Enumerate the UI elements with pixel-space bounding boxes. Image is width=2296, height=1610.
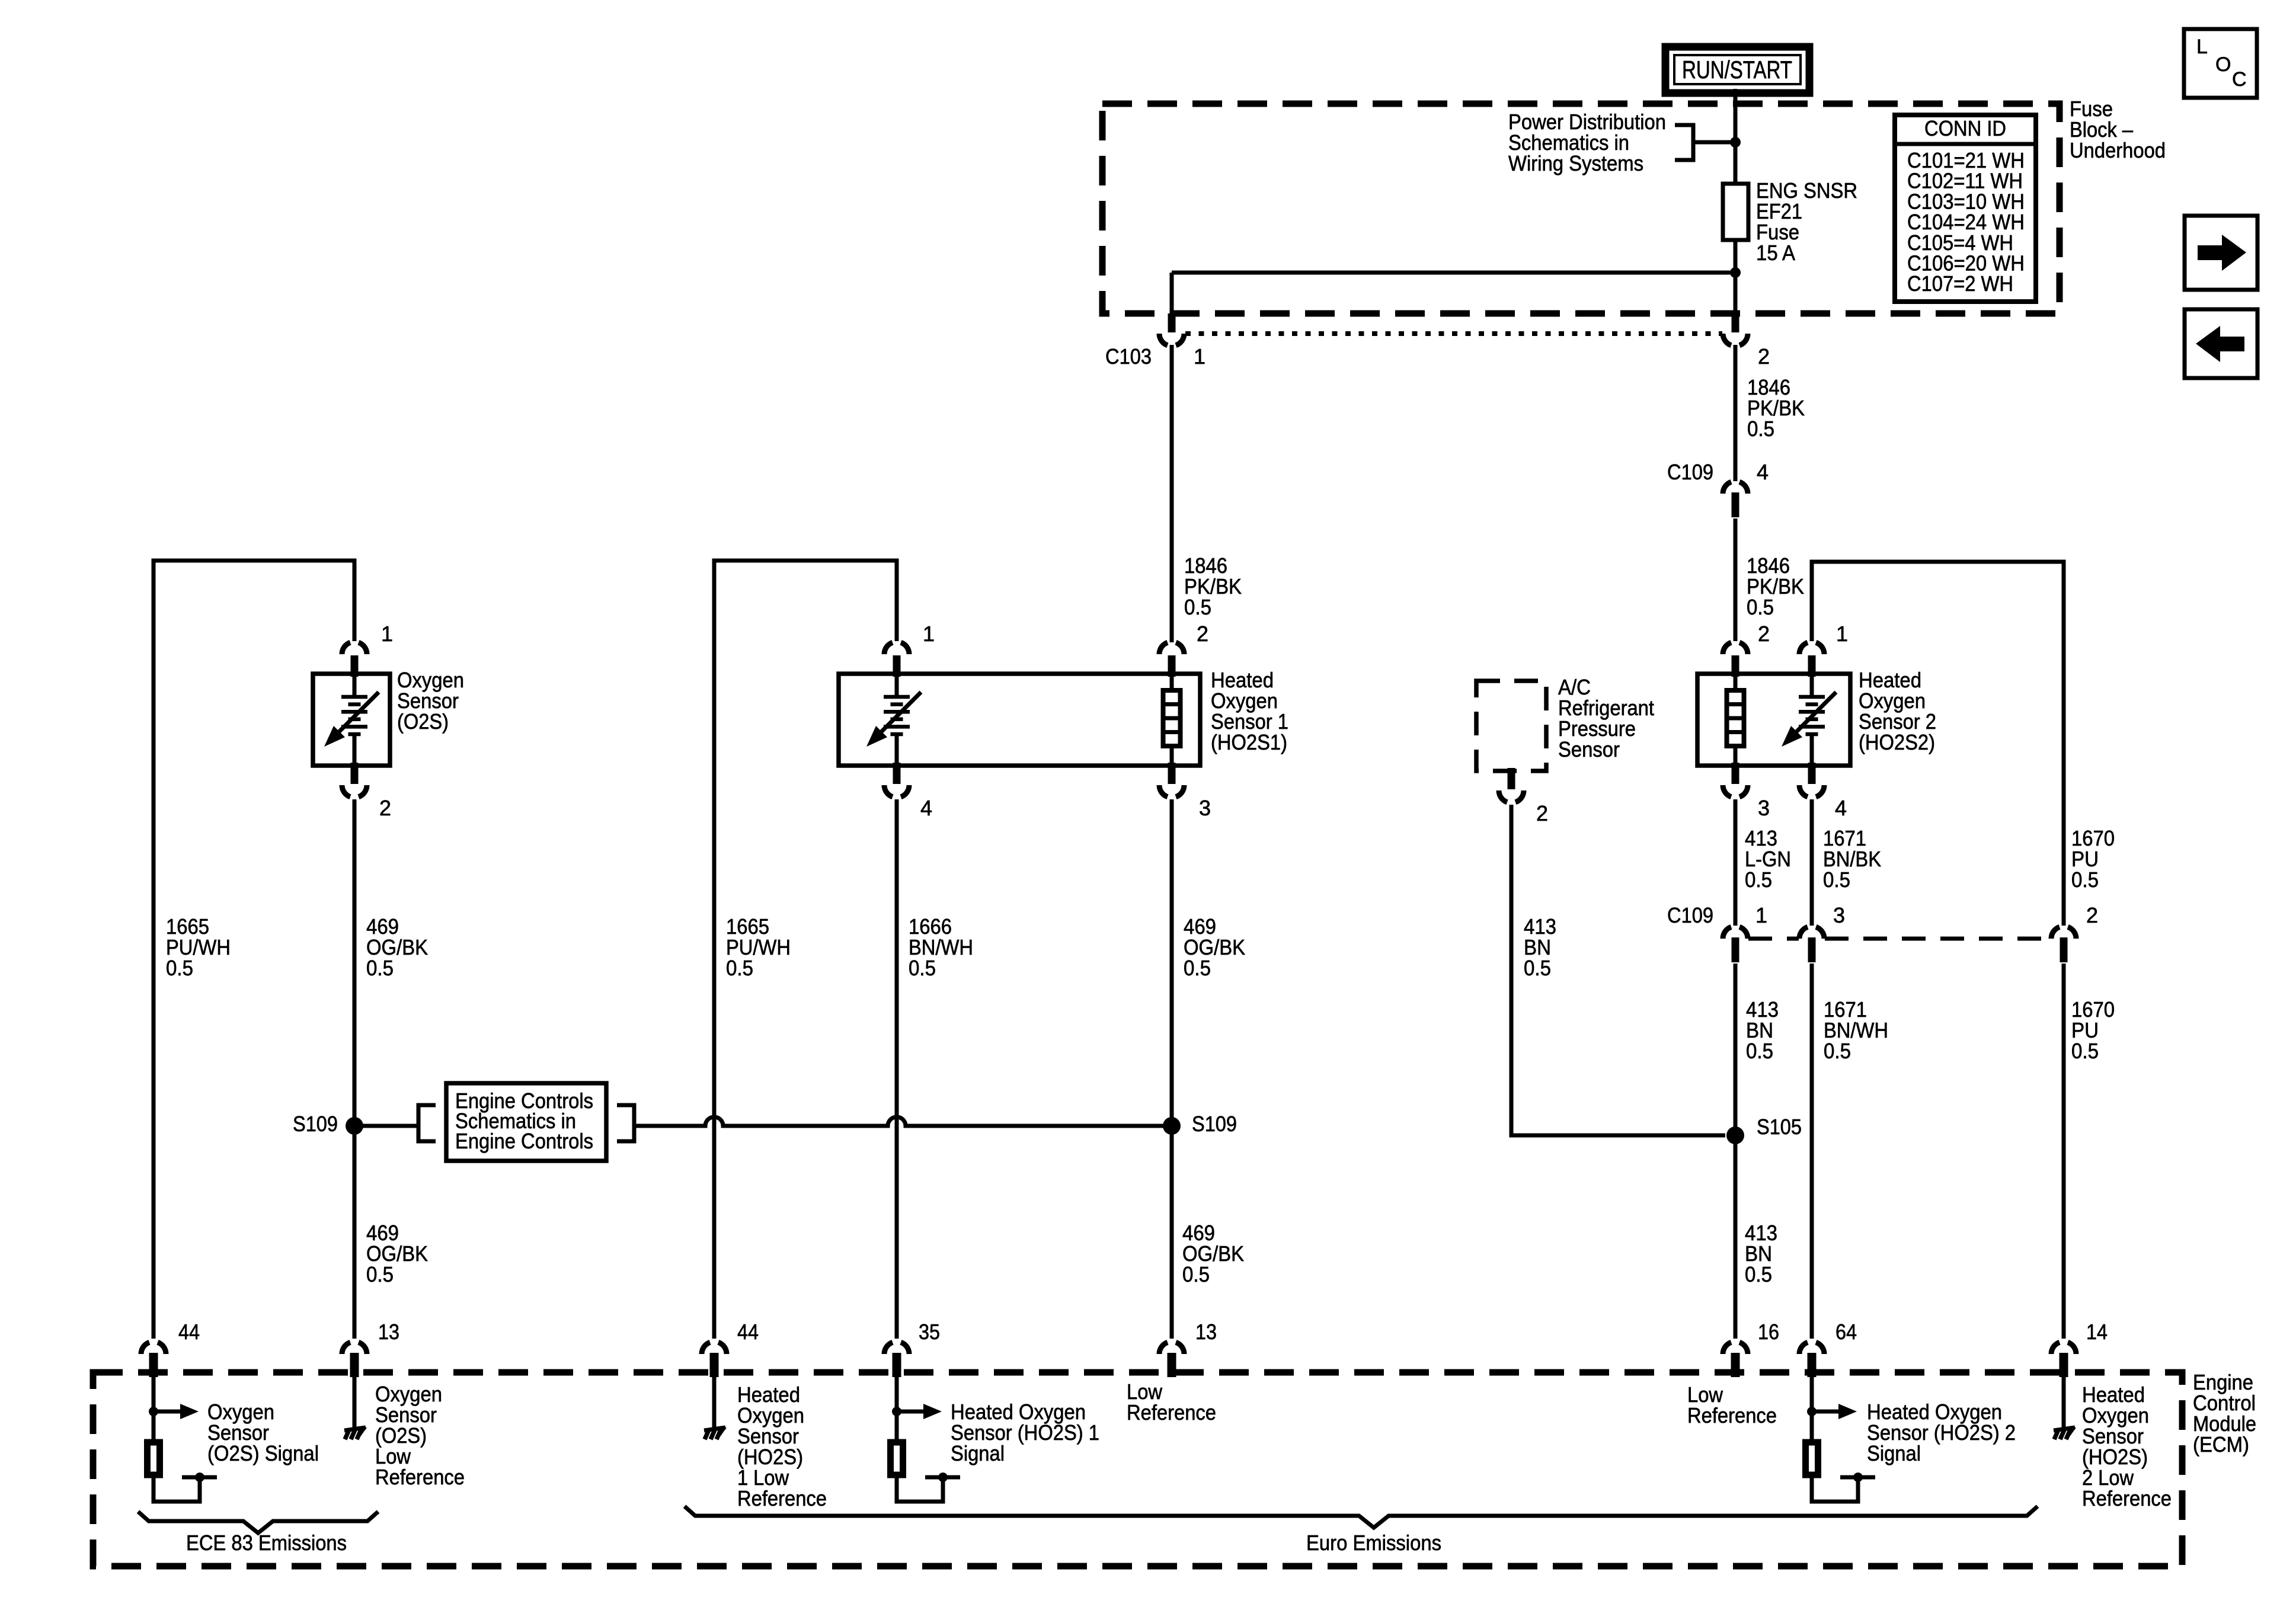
connector C109 pin 1 [1723,927,1748,962]
svg-text:0.5: 0.5 [1745,868,1772,892]
label wire 413 L-GN [1745,826,1791,892]
svg-text:CONN ID: CONN ID [1924,116,2006,140]
engine controls left bracket [418,1105,436,1141]
label ECM pin 16 [1758,1320,1779,1344]
connector O2S pin 2 [342,763,367,797]
label wire 469 OG/BK mid upper [1184,914,1245,980]
svg-text:(HO2S1): (HO2S1) [1211,730,1287,754]
svg-text:(O2S): (O2S) [397,709,449,734]
wire HO2S1 pin 1 loop [714,561,897,1339]
label O2S component [397,668,464,734]
label wire 413 BN left [1524,914,1556,980]
fuse block underhood dashed box [1102,104,2060,313]
wire 413 A/C pin2 to S105 [1511,805,1725,1135]
svg-text:Signal: Signal [1867,1441,1921,1465]
svg-text:0.5: 0.5 [366,1262,394,1286]
label ECM pin 13 mid [1195,1320,1217,1344]
junction dot fuse output [1730,267,1741,278]
svg-text:4: 4 [1835,796,1847,820]
splice S105 [1726,1126,1744,1144]
wire 1846 C109-4 to HO2S2 [1734,518,1738,641]
wire RUN/START to fuse [1734,89,1738,184]
svg-text:0.5: 0.5 [2071,868,2099,892]
label HO2S2 signal [1867,1400,2016,1465]
label A/C component [1558,675,1654,761]
svg-text:Engine Controls: Engine Controls [455,1129,593,1153]
connector ECM pin 16 [1723,1342,1748,1377]
CONN ID table [1895,115,2036,302]
svg-text:0.5: 0.5 [909,956,936,980]
HO2S2 sensing element [1782,674,1836,766]
label wire 1665 PU/WH left [166,914,231,980]
svg-text:C: C [2232,68,2247,91]
svg-text:0.5: 0.5 [366,956,394,980]
ECE 83 emissions brace [138,1512,378,1533]
svg-text:Reference: Reference [737,1486,827,1510]
label S109 mid [1192,1112,1237,1136]
label O2S signal [207,1400,319,1465]
wire 1846 C103-1 to HO2S1 [1170,345,1174,642]
svg-text:2: 2 [379,796,391,820]
svg-text:3: 3 [1199,796,1211,820]
connector A/C pin 2 [1499,768,1524,802]
svg-text:1: 1 [1755,903,1767,927]
svg-text:0.5: 0.5 [166,956,193,980]
wire 469 S109 to ECM left [353,1126,357,1339]
label wire 1846 PK/BK upper [1747,375,1805,441]
label HO2S2 pin 3 [1758,796,1770,820]
svg-text:4: 4 [1757,460,1769,484]
ground HO2S2 low reference [2054,1373,2076,1439]
svg-text:13: 13 [378,1320,399,1344]
label O2S pin 1 [381,622,393,646]
svg-text:16: 16 [1758,1320,1779,1344]
label wire 1846 PK/BK lower right [1747,553,1804,619]
svg-text:O: O [2215,53,2231,76]
svg-text:ECE 83 Emissions: ECE 83 Emissions [186,1531,347,1555]
LOC legend box [2184,29,2257,98]
label ECM pin 44 left [178,1320,200,1344]
component HO2S2 box [1697,674,1850,766]
label C109 [1667,460,1713,484]
svg-text:2: 2 [1758,344,1770,369]
svg-text:0.5: 0.5 [1823,868,1850,892]
label wire 1665 PU/WH mid [726,914,791,980]
svg-text:S105: S105 [1757,1115,1802,1139]
connector ECM pin 44 left [141,1342,166,1377]
label wire 1670 PU upper [2071,826,2115,892]
svg-text:L: L [2196,36,2208,58]
svg-text:C109: C109 [1667,460,1713,484]
label S109 left [293,1112,338,1136]
svg-text:44: 44 [737,1320,759,1344]
label wire 413 BN mid [1746,997,1779,1063]
svg-text:Euro Emissions: Euro Emissions [1306,1531,1441,1555]
ground HO2S1 low reference [704,1373,727,1439]
label HO2S1 pin 4 [920,796,932,820]
label C109 row2 [1667,903,1713,927]
svg-text:35: 35 [919,1320,940,1344]
svg-text:14: 14 [2086,1320,2108,1344]
connector ECM pin 64 [1799,1342,1824,1377]
label wire 1671 BN/BK [1823,826,1881,892]
svg-text:(O2S) Signal: (O2S) Signal [207,1441,319,1465]
label HO2S2 low reference [2082,1382,2172,1510]
connector ECM pin 13 left [342,1342,367,1377]
svg-text:2: 2 [2086,903,2098,927]
fuse ENG SNSR EF21 15A [1723,184,1748,273]
svg-text:2: 2 [1758,622,1770,646]
svg-text:2: 2 [1197,622,1208,646]
arrow icon right [2185,216,2257,290]
label ECM pin 35 [919,1320,940,1344]
C109 harness dashed line [1748,937,2051,941]
HO2S1 heater element [1163,674,1181,766]
svg-text:0.5: 0.5 [1824,1039,1851,1063]
svg-text:0.5: 0.5 [1182,1262,1210,1286]
svg-text:3: 3 [1758,796,1770,820]
svg-text:RUN/START: RUN/START [1682,56,1792,84]
label A/C pin 2 [1536,801,1548,825]
label HO2S1 low reference [737,1382,827,1510]
label HO2S1 signal [951,1400,1099,1465]
svg-text:0.5: 0.5 [1184,595,1211,619]
svg-text:Reference: Reference [1127,1400,1216,1425]
wire 1671 C109-3 to ECM [1810,964,1814,1339]
label HO2S1 component [1211,668,1288,754]
svg-text:Signal: Signal [951,1441,1005,1465]
wire 469 O2S pin2 to S109 [353,799,357,1126]
power distribution label [1508,110,1666,175]
label wire 1846 PK/BK middle [1184,553,1242,619]
HO2S2 signal tap arrow [1807,1404,1857,1419]
connector ECM pin 14 [2051,1342,2076,1377]
component O2S box [313,674,390,766]
svg-text:0.5: 0.5 [1746,1039,1773,1063]
svg-text:64: 64 [1835,1320,1857,1344]
label ECM [2193,1370,2256,1457]
label wire 1670 PU lower [2071,997,2115,1063]
label wire 469 OG/BK left lower [366,1221,428,1286]
label Euro emissions [1306,1531,1441,1555]
label ECE 83 emissions [186,1531,347,1555]
fuse block label [2070,97,2166,162]
svg-text:0.5: 0.5 [2071,1039,2099,1063]
svg-text:S109: S109 [293,1112,338,1136]
connector HO2S1 pin 3 [1159,763,1184,797]
svg-text:0.5: 0.5 [1184,956,1211,980]
label HO2S2 component [1859,668,1936,754]
wire 1846 C103-2 to C109-4 [1734,345,1738,481]
label HO2S2 pin 1 [1836,622,1848,646]
svg-text:13: 13 [1195,1320,1217,1344]
svg-text:4: 4 [920,796,932,820]
wire 1665 HO2S1 pin4 to ECM [895,799,899,1339]
ECM dashed box [93,1372,2182,1566]
ground O2S low reference [344,1373,367,1439]
engine controls right bracket [617,1105,634,1141]
svg-text:Sensor: Sensor [1558,737,1620,761]
label low reference right [1687,1382,1777,1427]
connector O2S pin 1 [342,642,367,677]
label wire 469 OG/BK left upper [366,914,428,980]
wire 469 HO2S1 pin3 to S109 [1170,799,1174,1126]
wire 469 S109 to ECM mid [1170,1126,1174,1339]
svg-text:C107=2 WH: C107=2 WH [1907,271,2013,296]
svg-text:1: 1 [923,622,935,646]
svg-text:C109: C109 [1667,903,1713,927]
svg-text:Reference: Reference [375,1465,465,1489]
label wire 413 BN lower [1745,1221,1777,1286]
svg-text:Reference: Reference [1687,1403,1777,1427]
C103 harness dotted line [1185,331,1722,336]
label wire 469 OG/BK mid lower [1182,1221,1244,1286]
label low reference mid [1127,1379,1216,1425]
svg-text:Underhood: Underhood [2070,138,2166,162]
label ECM pin 44 mid [737,1320,759,1344]
connector ECM pin 35 [884,1342,909,1377]
label ECM pin 14 [2086,1320,2108,1344]
wire bracket to S109 mid with crossovers [634,1117,1172,1126]
svg-text:15 A: 15 A [1756,241,1795,265]
fuse label [1756,178,1857,265]
svg-text:C103: C103 [1105,344,1152,369]
label wire 1666 BN/WH [909,914,973,980]
connector HO2S2 pin 4 [1799,763,1824,797]
label wire 1671 BN/WH [1824,997,1888,1063]
O2S signal tap arrow [149,1404,199,1419]
svg-text:Reference: Reference [2082,1486,2172,1510]
label HO2S1 pin 2 [1197,622,1208,646]
label HO2S2 pin 2 [1758,622,1770,646]
connector HO2S1 pin 2 [1159,642,1184,677]
component A/C refrigerant pressure sensor box [1476,681,1546,771]
resistor O2S signal input [148,1373,218,1502]
label C109 pin 3 [1833,903,1845,927]
label O2S low reference [375,1382,465,1489]
HO2S2 heater element [1727,674,1744,766]
svg-text:(ECM): (ECM) [2193,1432,2249,1457]
HO2S1 signal tap arrow [892,1404,942,1419]
O2S sensing element [324,674,379,766]
svg-text:44: 44 [178,1320,200,1344]
junction dot power distribution [1730,137,1741,148]
svg-text:0.5: 0.5 [726,956,753,980]
svg-text:S109: S109 [1192,1112,1237,1136]
engine controls reference box [446,1083,606,1161]
power distribution reference bracket [1675,125,1733,160]
label HO2S1 pin 1 [923,622,935,646]
connector HO2S2 pin 3 [1723,763,1748,797]
svg-text:0.5: 0.5 [1745,1262,1772,1286]
label C109 pin 4 [1757,460,1769,484]
connector C103 pin 2 [1723,313,1748,345]
wire 413 C109-1 to S105 to ECM [1734,964,1738,1339]
label S105 [1757,1115,1802,1139]
svg-text:2: 2 [1536,801,1548,825]
connector ECM pin 44 mid [702,1342,727,1377]
connector HO2S2 pin 1 [1799,642,1824,677]
svg-text:1: 1 [381,622,393,646]
wire HO2S2 pin 1 loop [1812,562,2064,926]
splice S109 left [346,1117,363,1135]
resistor HO2S2 signal input [1806,1373,1876,1502]
svg-text:(HO2S2): (HO2S2) [1859,730,1935,754]
svg-text:1: 1 [1194,344,1205,369]
wire 413 HO2S2 pin3 to C109-1 [1734,799,1738,926]
connector HO2S1 pin 4 [884,763,909,797]
label C103 [1105,344,1152,369]
svg-text:0.5: 0.5 [1747,595,1774,619]
Euro emissions brace [685,1506,2038,1528]
connector HO2S1 pin 1 [884,642,909,677]
label HO2S1 pin 3 [1199,796,1211,820]
wire fuse to C103-2 [1734,273,1738,315]
connector ECM pin 13 mid [1159,1342,1184,1377]
label O2S pin 2 [379,796,391,820]
label C103 pin 1 [1194,344,1205,369]
wire O2S pin 1 loop [154,561,354,1339]
component HO2S1 box [839,674,1200,766]
svg-text:1: 1 [1836,622,1848,646]
svg-text:3: 3 [1833,903,1845,927]
connector C109 pin 4 [1723,482,1748,517]
wire 1670 C109-2 to ECM [2062,964,2066,1339]
wire S109 to engine controls bracket [354,1124,418,1128]
RUN/START hot-in-run feed box [1665,47,1809,93]
label C109 pin 2 [2086,903,2098,927]
arrow icon left [2185,309,2257,378]
splice S109 mid [1163,1117,1181,1135]
svg-text:0.5: 0.5 [1747,417,1774,441]
label C109 pin 1 [1755,903,1767,927]
wire fuse output horizontal [1172,273,1735,315]
connector C109 pin 2 [2051,927,2076,962]
label C103 pin 2 [1758,344,1770,369]
svg-text:0.5: 0.5 [1524,956,1551,980]
connector HO2S2 pin 2 [1723,642,1748,677]
connector C109 pin 3 [1799,927,1824,962]
label HO2S2 pin 4 [1835,796,1847,820]
connector C103 pin 1 [1159,313,1184,345]
svg-text:Wiring Systems: Wiring Systems [1508,151,1643,175]
label ECM pin 13 left [378,1320,399,1344]
wire 1671 HO2S2 pin4 to C109-3 [1810,799,1814,926]
resistor HO2S1 signal input [891,1373,961,1502]
HO2S1 sensing element [866,674,921,766]
label ECM pin 64 [1835,1320,1857,1344]
